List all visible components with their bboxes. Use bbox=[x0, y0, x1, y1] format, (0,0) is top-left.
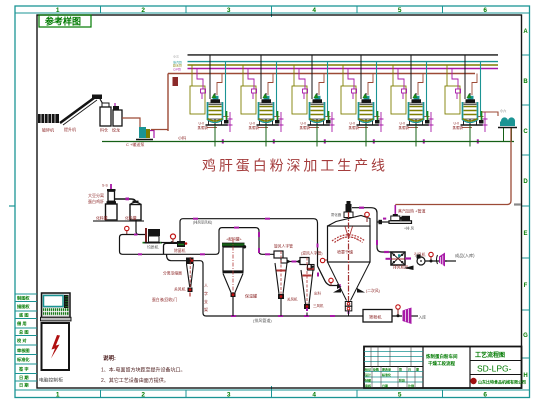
bus pipe olive (water) bbox=[188, 64, 499, 66]
dissolve tank T1 bbox=[96, 184, 117, 221]
svg-text:参考样图: 参考样图 bbox=[45, 16, 81, 27]
svg-text:审核图: 审核图 bbox=[17, 347, 30, 354]
small fan circle bbox=[417, 252, 448, 265]
magenta silencer wedge bbox=[437, 255, 438, 264]
homogenizer pump bbox=[143, 228, 163, 250]
svg-text:期: 期 bbox=[416, 367, 419, 372]
svg-text:阶段: 阶段 bbox=[399, 378, 405, 383]
pipe over tank loop bbox=[216, 228, 274, 255]
svg-text:CIP管: CIP管 bbox=[173, 66, 181, 71]
svg-text:破碎机: 破碎机 bbox=[42, 127, 54, 133]
svg-text:小料: 小料 bbox=[178, 135, 186, 141]
cooking vessel unit 5 bbox=[391, 55, 434, 147]
svg-text:喷雾干燥: 喷雾干燥 bbox=[337, 249, 353, 255]
svg-text:5: 5 bbox=[398, 392, 402, 399]
svg-text:化料罐: 化料罐 bbox=[96, 216, 108, 221]
branch down into concentrator cyclone bbox=[167, 254, 187, 260]
svg-text:(二次风): (二次风) bbox=[366, 288, 381, 293]
svg-text:F: F bbox=[524, 283, 528, 289]
red valve on dryer roof bbox=[365, 212, 370, 217]
svg-text:鸡肝蛋白粉深加工生产线: 鸡肝蛋白粉深加工生产线 bbox=[202, 158, 388, 174]
svg-text:提升机: 提升机 bbox=[64, 126, 76, 132]
svg-text:C: C bbox=[523, 129, 528, 135]
bottom ruler numbers bbox=[56, 392, 488, 399]
svg-text:成品(入库): 成品(入库) bbox=[455, 252, 475, 259]
svg-text:关风机: 关风机 bbox=[287, 297, 298, 302]
svg-text:1、本-电面留方块距至提升设备坑口。: 1、本-电面留方块距至提升设备坑口。 bbox=[101, 367, 185, 374]
top ruler ticks bbox=[101, 6, 443, 17]
svg-text:蛋白液(回收)门: 蛋白液(回收)门 bbox=[152, 297, 178, 302]
svg-text:D: D bbox=[523, 179, 528, 185]
svg-text:1: 1 bbox=[56, 7, 60, 14]
svg-text:审核: 审核 bbox=[365, 383, 371, 388]
bottom ruler ticks bbox=[101, 386, 443, 398]
svg-text:H: H bbox=[523, 373, 527, 379]
exhaust fan X-box bbox=[386, 252, 426, 270]
svg-text:说明:: 说明: bbox=[103, 354, 116, 362]
svg-text:(混风人字管): (混风人字管) bbox=[301, 251, 323, 256]
tank base line bbox=[93, 220, 144, 222]
svg-text:3: 3 bbox=[227, 7, 231, 14]
red valve V1 bbox=[125, 226, 129, 230]
svg-text:保温罐: 保温罐 bbox=[245, 293, 257, 299]
svg-text:比例: 比例 bbox=[408, 383, 414, 388]
right ruler letters bbox=[523, 29, 528, 379]
discharge pump after unit 6 bbox=[482, 108, 517, 142]
svg-text:(排风至风机): (排风至风机) bbox=[193, 220, 212, 225]
svg-text:描图权: 描图权 bbox=[17, 303, 30, 310]
cooking vessel unit 1 bbox=[190, 55, 233, 147]
spray dryer tower bbox=[314, 201, 381, 316]
pipe cyclone A to cyclone B bbox=[287, 261, 300, 263]
holding tank 配料罐 bbox=[222, 237, 257, 317]
svg-text:+排 风: +排 风 bbox=[404, 226, 415, 231]
svg-text:校 对: 校 对 bbox=[17, 337, 27, 344]
feed hopper bbox=[100, 103, 111, 133]
svg-text:工艺流程图: 工艺流程图 bbox=[475, 351, 505, 359]
bottom ruler line bbox=[15, 389, 530, 391]
top ruler line bbox=[15, 12, 530, 14]
svg-text:日 期: 日 期 bbox=[19, 382, 29, 389]
cooking vessel unit 3 bbox=[292, 55, 335, 147]
svg-text:电脑控制柜: 电脑控制柜 bbox=[39, 377, 63, 384]
branch stub with tee bbox=[377, 221, 389, 223]
notes bbox=[101, 354, 185, 384]
left border mid tick bbox=[9, 205, 15, 207]
air blower with motor bbox=[389, 205, 415, 231]
svg-text:山东比特食品机械有限公司: 山东比特食品机械有限公司 bbox=[478, 379, 526, 385]
screw feeder bbox=[112, 103, 122, 133]
svg-text:排风机组: 排风机组 bbox=[393, 265, 408, 270]
green drain header bbox=[102, 141, 514, 143]
svg-text:旋风人字管: 旋风人字管 bbox=[274, 244, 293, 249]
bus pipe magenta (CIP) bbox=[188, 68, 499, 70]
grey tick at frame bbox=[514, 203, 521, 205]
svg-text:3: 3 bbox=[227, 392, 231, 399]
left margin signature strip bbox=[15, 294, 37, 381]
cooking vessel unit 2 bbox=[241, 55, 284, 147]
svg-text:除菌机: 除菌机 bbox=[174, 248, 186, 253]
svg-text:G: G bbox=[523, 333, 528, 339]
dissolve tank T2 bbox=[114, 198, 141, 221]
svg-text:E: E bbox=[523, 231, 527, 237]
svg-text:标准化: 标准化 bbox=[16, 356, 30, 363]
svg-text:分离浓缩器: 分离浓缩器 bbox=[163, 271, 182, 276]
dryer exhaust pipe to fan bbox=[352, 208, 391, 252]
svg-text:1: 1 bbox=[56, 392, 60, 399]
svg-text:入库: 入库 bbox=[419, 315, 427, 320]
svg-text:签 字: 签 字 bbox=[18, 366, 29, 373]
svg-text:小三: 小三 bbox=[173, 54, 179, 59]
svg-text:小六: 小六 bbox=[500, 108, 507, 113]
svg-text:4: 4 bbox=[312, 392, 316, 399]
svg-text:2、其它工艺设备由面方提供。: 2、其它工艺设备由面方提供。 bbox=[101, 377, 169, 384]
svg-text:底 图: 底 图 bbox=[19, 312, 29, 319]
feed riser block bbox=[173, 77, 179, 86]
svg-text:均质机: 均质机 bbox=[147, 245, 159, 250]
svg-text:SD-LPG-: SD-LPG- bbox=[477, 364, 512, 374]
fines return pipe into dryer cone bbox=[318, 266, 338, 286]
cyclone A bbox=[274, 244, 298, 317]
svg-text:料仓: 料仓 bbox=[100, 127, 108, 133]
red valve V2 bbox=[171, 234, 176, 239]
svg-text:筛粉机: 筛粉机 bbox=[369, 314, 382, 321]
svg-text:处数: 处数 bbox=[372, 367, 379, 372]
svg-text:标准化: 标准化 bbox=[381, 372, 391, 377]
svg-text:人: 人 bbox=[204, 283, 208, 288]
bus pipe dark red (feed) bbox=[168, 73, 475, 75]
svg-text:关风机: 关风机 bbox=[174, 287, 186, 292]
svg-text:出料: 出料 bbox=[314, 291, 322, 296]
cyclone C1 exhaust elbow down bbox=[194, 261, 207, 316]
cyclone B bbox=[300, 251, 324, 317]
svg-text:设计: 设计 bbox=[365, 372, 371, 377]
brown steam supply pipe to heater bbox=[395, 128, 511, 205]
pipe tank2 to pump inlet bbox=[136, 220, 146, 235]
pump discharge to sterilizer bbox=[161, 242, 177, 244]
svg-text:借 用: 借 用 bbox=[16, 320, 27, 327]
svg-text:大豆分离: 大豆分离 bbox=[88, 192, 104, 198]
svg-text:C +输送泵: C +输送泵 bbox=[126, 141, 144, 147]
feed riser from transfer pump bbox=[167, 74, 169, 132]
svg-text:+配料罐+: +配料罐+ bbox=[226, 237, 243, 242]
svg-text:S-S: S-S bbox=[102, 184, 109, 188]
sieve machine box bbox=[363, 305, 402, 322]
svg-text:制图: 制图 bbox=[365, 378, 371, 383]
magenta packing wedge bbox=[403, 308, 412, 325]
inclined conveyor bbox=[60, 95, 104, 133]
transfer pump bbox=[122, 118, 168, 147]
svg-text:总 图: 总 图 bbox=[19, 329, 29, 336]
reference label box 参考样图 bbox=[39, 15, 91, 27]
concentrator cyclone C1 bbox=[152, 257, 194, 302]
svg-text:字: 字 bbox=[204, 290, 208, 296]
svg-text:A: A bbox=[523, 29, 528, 35]
branch tee up to sterilizer bbox=[164, 243, 178, 254]
top ruler numbers bbox=[56, 7, 488, 14]
svg-text:标记: 标记 bbox=[364, 367, 371, 372]
svg-text:架: 架 bbox=[204, 306, 208, 312]
svg-text:4: 4 bbox=[312, 7, 316, 14]
svg-text:更改单: 更改单 bbox=[382, 367, 391, 372]
pipe loop drop to transfer line bbox=[120, 235, 217, 255]
crusher bbox=[38, 114, 59, 133]
svg-text:日 期: 日 期 bbox=[19, 374, 29, 381]
sterilizer bbox=[174, 241, 187, 253]
svg-text:2: 2 bbox=[141, 7, 145, 14]
riser to top exhaust header bbox=[180, 219, 318, 266]
svg-text:蒸汽加热 +管道: 蒸汽加热 +管道 bbox=[398, 208, 425, 214]
svg-text:6: 6 bbox=[483, 7, 487, 14]
bus pipe black (power) bbox=[188, 54, 499, 56]
svg-text:炼制蛋白粉车间: 炼制蛋白粉车间 bbox=[426, 353, 458, 360]
control cabinet bbox=[39, 293, 71, 384]
svg-text:日: 日 bbox=[408, 367, 411, 372]
bottom exhaust header bbox=[206, 315, 363, 317]
svg-text:绞龙: 绞龙 bbox=[112, 127, 120, 133]
bus pipe teal (steam) bbox=[188, 61, 499, 63]
svg-text:支: 支 bbox=[204, 298, 208, 304]
svg-text:三风机: 三风机 bbox=[313, 303, 324, 308]
svg-text:干燥工段流程: 干燥工段流程 bbox=[428, 360, 455, 367]
svg-text:制图权: 制图权 bbox=[17, 295, 30, 302]
svg-text:6: 6 bbox=[483, 392, 487, 399]
svg-text:化料罐: 化料罐 bbox=[125, 216, 137, 221]
svg-text:5: 5 bbox=[398, 7, 402, 14]
right ruler ticks bbox=[522, 55, 530, 358]
svg-text:(排风管道): (排风管道) bbox=[253, 317, 272, 323]
cooking vessel unit 6 bbox=[445, 55, 488, 147]
svg-text:日期: 日期 bbox=[382, 383, 388, 388]
svg-text:2: 2 bbox=[141, 392, 145, 399]
cooking vessel unit 4 bbox=[341, 55, 384, 147]
svg-text:B: B bbox=[523, 79, 528, 85]
title block bbox=[364, 347, 526, 389]
svg-text:蛋白鸡肝: 蛋白鸡肝 bbox=[88, 198, 104, 204]
svg-text:雾化器: 雾化器 bbox=[331, 212, 342, 217]
